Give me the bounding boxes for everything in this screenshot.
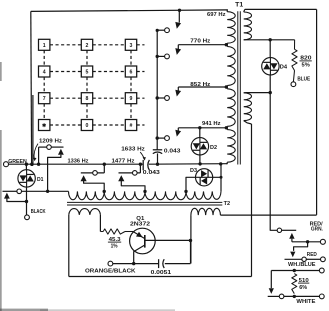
capacitor C-0.043 (row bus) bottom plate bbox=[153, 152, 162, 154]
arrow 1209 switch bbox=[58, 149, 64, 155]
label 2N372 bbox=[130, 221, 150, 227]
label 697 Hz bbox=[207, 12, 226, 18]
node junction D2 bottom bbox=[198, 162, 201, 165]
svg-text:0.043: 0.043 bbox=[164, 148, 181, 154]
wire keypad common vertical bbox=[32, 95, 34, 164]
keypad button 7 bbox=[39, 93, 50, 104]
label 770 Hz bbox=[190, 39, 210, 45]
wire WHITE fixed bar bbox=[268, 295, 280, 297]
contact circle hookswitch bbox=[17, 189, 22, 194]
wire 697 Hz arm bbox=[178, 10, 180, 22]
keypad column 3 dashed link bbox=[130, 50, 132, 119]
svg-text:5%: 5% bbox=[302, 63, 310, 69]
wire RED/GRN fixed bar bbox=[282, 229, 297, 231]
label 0.043 (row bus cap) bbox=[164, 148, 181, 154]
transistor Q1 collector lead bbox=[134, 245, 145, 264]
label Q1 bbox=[136, 216, 145, 222]
contact circle 941 Hz bbox=[165, 136, 170, 141]
svg-text:D3: D3 bbox=[190, 168, 198, 174]
scan edge left lower bbox=[0, 130, 2, 311]
svg-text:9: 9 bbox=[130, 96, 133, 102]
transformer T1 secondary winding lower bbox=[244, 93, 270, 124]
wire WHITE line bbox=[284, 295, 320, 297]
keypad column 2 dashed link bbox=[86, 50, 88, 119]
label 45.3 bbox=[108, 237, 122, 243]
wire row bus below cap bbox=[157, 153, 159, 164]
transistor Q1 base lead bbox=[145, 239, 191, 241]
capacitor C-0.0051 right plate bbox=[163, 259, 164, 268]
wire T1 secondary top to ring side bbox=[245, 8, 317, 10]
label D2 bbox=[210, 145, 217, 151]
scan edge left upper bbox=[0, 62, 2, 81]
svg-text:770 Hz: 770 Hz bbox=[190, 39, 210, 45]
transistor Q1 base bar bbox=[144, 235, 146, 248]
node junction 1336 bar on green bus bbox=[103, 163, 106, 166]
node junction T1 primary bottom / D3 bbox=[219, 162, 222, 165]
terminal WHITE bbox=[319, 294, 324, 299]
svg-text:1: 1 bbox=[43, 43, 46, 49]
svg-text:D1: D1 bbox=[37, 177, 44, 183]
capacitor C-0.043 (row bus) top plate bbox=[153, 149, 162, 151]
keypad button 4 bbox=[39, 66, 50, 77]
label T2 bbox=[224, 201, 231, 207]
capacitor C-0.043 (series, green line) right plate bbox=[148, 160, 150, 170]
label BLACK bbox=[31, 209, 46, 215]
label 510 bbox=[298, 278, 309, 284]
node junction 941 Hz T1 tap bbox=[225, 126, 228, 129]
svg-text:RED: RED bbox=[307, 252, 317, 258]
node junction 770 Hz bar on row bus bbox=[156, 55, 159, 58]
wire 0.0051 to collector node bbox=[165, 263, 191, 265]
arrow 697 Hz switch bbox=[175, 22, 181, 29]
svg-text:697 Hz: 697 Hz bbox=[207, 12, 226, 18]
wire D1 bottom lead to BLACK bbox=[26, 187, 28, 215]
scan edge bottom corner bbox=[0, 309, 48, 311]
keypad button 5 bbox=[81, 66, 92, 77]
svg-text:1209 Hz: 1209 Hz bbox=[39, 138, 62, 144]
arrow 941 Hz switch bbox=[175, 130, 181, 137]
wire left feed vertical bbox=[30, 11, 33, 164]
transformer T2 core bbox=[67, 202, 222, 205]
svg-text:2: 2 bbox=[86, 43, 89, 49]
resistor R-510 bbox=[292, 274, 297, 294]
label 1% bbox=[111, 243, 118, 249]
node junction 852 Hz bar on row bus bbox=[156, 96, 159, 99]
label WH./BLUE bbox=[288, 262, 316, 268]
wire RED/GRN line bbox=[292, 241, 321, 243]
wire 1209 bar drop bbox=[38, 147, 40, 164]
transformer T1 core bbox=[238, 11, 241, 164]
svg-text:852 Hz: 852 Hz bbox=[190, 82, 210, 88]
node junction D3 on T2 tap bbox=[184, 190, 187, 193]
wire 1336 bar drop bbox=[103, 164, 105, 173]
wire 697 Hz fixed bar bbox=[157, 29, 164, 31]
transformer T2 primary winding bbox=[69, 191, 222, 199]
wire hookswitch fixed bar bbox=[3, 190, 17, 192]
contact circle RED/GRN hook bbox=[277, 228, 281, 232]
wire 1477 fixed bar bbox=[119, 172, 141, 174]
arrow RED hook bbox=[290, 252, 295, 258]
label 6% bbox=[299, 285, 307, 291]
svg-text:6%: 6% bbox=[299, 285, 307, 291]
contact circle 697 Hz bbox=[165, 28, 170, 33]
transformer T1 primary winding bbox=[226, 10, 235, 164]
wire 770 Hz arm bbox=[177, 45, 179, 49]
wire D4 through lead bbox=[269, 40, 271, 93]
svg-text:✱: ✱ bbox=[42, 123, 47, 129]
wire 941 Hz fixed bar bbox=[157, 137, 164, 139]
wire 770 Hz fixed bar bbox=[157, 55, 164, 57]
keypad button pound bbox=[125, 120, 136, 131]
arrow WHITE hook bbox=[269, 288, 274, 294]
label T1 bbox=[235, 3, 244, 9]
transformer T2 secondary winding left bbox=[69, 209, 101, 277]
node junction 510 top bbox=[293, 269, 296, 272]
wire 852 Hz arm bbox=[177, 87, 179, 91]
contact circle 770 Hz bbox=[165, 54, 170, 59]
label ORANGE/BLACK bbox=[85, 268, 136, 274]
wire 1477 bar drop bbox=[139, 164, 141, 173]
transistor Q1 body bbox=[130, 228, 156, 254]
label 1209 Hz bbox=[39, 138, 62, 144]
wire hookswitch arm bbox=[7, 198, 27, 202]
svg-text:1336 Hz: 1336 Hz bbox=[68, 159, 89, 165]
label WHITE bbox=[296, 299, 315, 305]
wire 1336 fixed bar bbox=[81, 172, 105, 174]
keypad button 0 bbox=[81, 120, 92, 131]
wire D2 top lead bbox=[199, 128, 201, 138]
wire T1 secondary bottom drop bbox=[251, 124, 253, 277]
arrow 770 Hz switch bbox=[175, 48, 181, 55]
arrow hookswitch bbox=[4, 193, 10, 199]
arrow Q1 emitter bbox=[136, 232, 143, 238]
wire row common bus bbox=[156, 30, 158, 150]
node junction Q1 base / T2 bbox=[189, 239, 192, 242]
terminal BLACK bbox=[25, 215, 30, 220]
label 820 bbox=[300, 56, 312, 62]
wire 852 Hz line bbox=[178, 86, 226, 88]
varistor D3 bbox=[196, 169, 213, 186]
node junction emitter line bbox=[132, 262, 135, 265]
wire RED fixed bar bbox=[285, 258, 302, 260]
label 941 Hz bbox=[202, 121, 221, 127]
svg-text:GRN.: GRN. bbox=[311, 226, 323, 232]
node junction 1477 arm on T2 tap bbox=[143, 190, 146, 193]
wire emitter line bbox=[113, 263, 159, 265]
contact circle 1477 bbox=[133, 171, 138, 176]
wire ring-side vertical bbox=[316, 9, 318, 215]
node junction D4 top bbox=[269, 38, 272, 41]
arrow 1336 switch bbox=[81, 175, 87, 181]
node junction left feed on green bus bbox=[30, 162, 34, 166]
wire 1209 arm bbox=[48, 155, 61, 192]
label RED bbox=[307, 252, 317, 258]
wire D3 left lead bbox=[186, 177, 196, 191]
keypad button 1 bbox=[39, 39, 50, 50]
wire WH/BLUE line bbox=[271, 270, 319, 272]
resistor R-820 bbox=[292, 40, 297, 82]
contact circle 1209 bbox=[47, 145, 52, 150]
label D4 bbox=[280, 64, 288, 70]
terminal WH/BLUE bbox=[319, 268, 324, 273]
label GRN. bbox=[311, 226, 323, 232]
label 1477 Hz bbox=[112, 159, 135, 165]
leader 1633 Hz bbox=[140, 152, 146, 161]
svg-text:1477 Hz: 1477 Hz bbox=[112, 159, 135, 165]
wire green bus left segment bbox=[8, 163, 143, 165]
node junction D2 on 941 line bbox=[198, 126, 201, 129]
keypad button star bbox=[39, 120, 50, 131]
label D3 bbox=[190, 168, 198, 174]
node junction 510 bottom bbox=[293, 295, 296, 298]
svg-text:5: 5 bbox=[86, 70, 89, 76]
svg-text:GREEN: GREEN bbox=[8, 159, 27, 165]
contact circle WHITE bbox=[279, 294, 284, 299]
terminal ORANGE/BLACK bbox=[108, 261, 113, 266]
transformer T1 secondary winding upper bbox=[244, 9, 252, 39]
label RED/ bbox=[310, 221, 323, 227]
label D1 bbox=[37, 177, 44, 183]
svg-text:T1: T1 bbox=[235, 3, 244, 9]
keypad row 4 dashed link bbox=[50, 124, 145, 126]
keypad button 2 bbox=[81, 39, 92, 50]
wire line A (to T2 primary start) bbox=[22, 190, 69, 192]
wire T1 secondary mid tap bbox=[244, 39, 295, 41]
capacitor C-0.0051 left plate bbox=[158, 259, 160, 268]
keypad button 6 bbox=[125, 66, 136, 77]
svg-text:2N372: 2N372 bbox=[130, 221, 150, 227]
svg-text:8: 8 bbox=[86, 96, 89, 102]
arrow 852 Hz switch bbox=[175, 90, 181, 97]
contact circle 1336 bbox=[93, 171, 98, 176]
svg-text:0.043: 0.043 bbox=[143, 170, 161, 176]
svg-text:941 Hz: 941 Hz bbox=[202, 121, 221, 127]
wire oscillator bottom rail bbox=[69, 276, 252, 278]
contact circle RED bbox=[302, 257, 306, 261]
svg-text:1%: 1% bbox=[111, 243, 118, 249]
svg-text:BLUE: BLUE bbox=[297, 77, 310, 83]
label GREEN bbox=[8, 159, 27, 165]
node junction D1 top bbox=[25, 163, 28, 166]
keypad row 3 dashed link bbox=[50, 97, 145, 99]
wire RED arm bbox=[294, 242, 308, 251]
wire RED/GRN arm stem bbox=[291, 239, 293, 242]
node junction row-bus on green bus bbox=[156, 163, 159, 166]
wire D1 top lead bbox=[25, 164, 27, 170]
wire D2 bottom lead bbox=[199, 155, 201, 164]
keypad button 3 bbox=[125, 39, 136, 50]
terminal RED bbox=[321, 257, 326, 262]
wire 1336 arm bbox=[84, 181, 105, 191]
svg-text:WHITE: WHITE bbox=[296, 299, 315, 305]
transistor Q1 emitter lead bbox=[133, 232, 145, 239]
node junction hookswitch arm bbox=[25, 200, 28, 203]
transformer T2 secondary winding right bbox=[191, 208, 221, 263]
keypad column 1 dashed link bbox=[43, 50, 45, 119]
svg-text:6: 6 bbox=[130, 70, 133, 76]
wire 1209 bar right bbox=[51, 146, 63, 148]
node junction 941 Hz bar on row bus bbox=[156, 136, 159, 139]
leader 1209 Hz bbox=[33, 144, 38, 162]
varistor D2 bbox=[191, 138, 208, 155]
wire T2 right leg lower bbox=[190, 241, 192, 264]
wire T2 primary right end drop bbox=[220, 177, 222, 191]
node junction 697 bar on row bus bbox=[156, 29, 159, 32]
arrow 1477 switch bbox=[118, 175, 124, 181]
wire 852 Hz fixed bar bbox=[157, 97, 164, 99]
arrow RED/GRN hook bbox=[289, 233, 294, 239]
svg-text:7: 7 bbox=[43, 96, 46, 102]
varistor D4 bbox=[262, 58, 279, 75]
capacitor C-0.043 (series, green line) left plate bbox=[142, 160, 144, 170]
varistor D1 bbox=[18, 170, 35, 187]
terminal RED/GRN bbox=[320, 239, 325, 244]
keypad row 1 dashed link bbox=[50, 44, 145, 46]
terminal GREEN bbox=[4, 162, 9, 167]
node junction 852 Hz T1 tap bbox=[225, 85, 228, 88]
wire D3 right lead bbox=[213, 164, 221, 177]
svg-text:D4: D4 bbox=[280, 64, 288, 70]
contact circle 852 Hz bbox=[165, 96, 170, 101]
node junction 1336 arm on T2 tap bbox=[103, 190, 106, 193]
wire 770 Hz line bbox=[178, 44, 226, 46]
svg-text:4: 4 bbox=[43, 70, 46, 76]
label 0.043 (series cap) bbox=[143, 170, 161, 176]
wire 941 Hz line bbox=[178, 127, 226, 129]
keypad row 2 dashed link bbox=[50, 71, 145, 73]
wire 697 Hz feed line (top) bbox=[31, 10, 228, 12]
svg-text:3: 3 bbox=[130, 43, 133, 49]
svg-text:ORANGE/BLACK: ORANGE/BLACK bbox=[85, 268, 136, 274]
wire 1209 fixed bar bbox=[39, 146, 47, 148]
svg-text:0: 0 bbox=[86, 123, 89, 129]
svg-text:BLACK: BLACK bbox=[31, 209, 46, 215]
wire RED line bbox=[306, 258, 320, 260]
label 1633 Hz bbox=[121, 147, 145, 153]
node junction 1477 bar on green bus bbox=[139, 163, 142, 166]
node junction D3 right bbox=[220, 176, 223, 179]
wire WHITE arm bbox=[270, 271, 272, 289]
svg-text:D2: D2 bbox=[210, 145, 217, 151]
node junction 697 Hz arm bbox=[178, 9, 181, 12]
terminal BLUE bbox=[291, 82, 296, 87]
label 0.0051 bbox=[151, 270, 172, 276]
svg-text:0.0051: 0.0051 bbox=[151, 270, 172, 276]
svg-text:WH./BLUE: WH./BLUE bbox=[288, 262, 316, 268]
svg-text:1633 Hz: 1633 Hz bbox=[121, 147, 145, 153]
wire ring-side bottom horizontal bbox=[220, 214, 316, 216]
label BLUE bbox=[297, 77, 310, 83]
label 1336 Hz bbox=[68, 159, 89, 165]
keypad button 9 bbox=[125, 93, 136, 104]
svg-text:#: # bbox=[130, 123, 133, 129]
node junction 1209 bar on green bus bbox=[37, 163, 40, 166]
wire 941 Hz arm bbox=[177, 128, 179, 131]
resistor R-45.3 bbox=[100, 229, 133, 234]
keypad button 8 bbox=[81, 93, 92, 104]
label 5% bbox=[302, 63, 310, 69]
node junction D4 bottom bbox=[269, 91, 272, 94]
svg-text:T2: T2 bbox=[224, 201, 231, 207]
wire 1477 arm bbox=[121, 181, 145, 191]
node junction 770 Hz T1 tap bbox=[225, 43, 228, 46]
node junction RED switch takeoff bbox=[306, 240, 309, 243]
scan edge bottom bbox=[40, 309, 175, 311]
wire D4 node to hook contact bbox=[270, 93, 277, 231]
label 852 Hz bbox=[190, 82, 210, 88]
node junction 1209 arm on T2 tap bbox=[46, 190, 49, 193]
wire green bus right segment bbox=[149, 163, 227, 166]
